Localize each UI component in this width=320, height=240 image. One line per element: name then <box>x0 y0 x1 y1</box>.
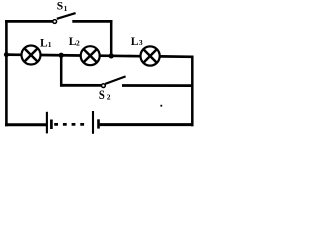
svg-text:S: S <box>99 88 105 102</box>
svg-text:1: 1 <box>64 4 68 13</box>
svg-text:1: 1 <box>48 40 52 49</box>
svg-text:3: 3 <box>139 38 143 47</box>
svg-text:2: 2 <box>76 39 80 48</box>
svg-text:2: 2 <box>107 92 111 101</box>
svg-text:S: S <box>57 0 63 12</box>
svg-text:L: L <box>131 36 139 48</box>
